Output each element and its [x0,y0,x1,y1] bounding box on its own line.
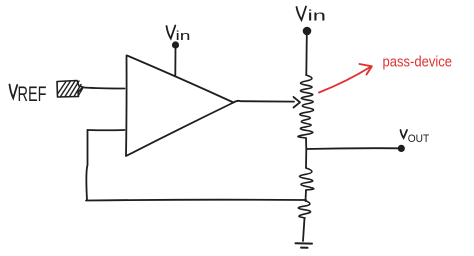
svg-text:REF: REF [18,83,47,106]
svg-text:in: in [308,9,327,25]
svg-text:in: in [176,28,191,43]
svg-text:pass-device: pass-device [383,54,453,71]
svg-text:OUT: OUT [408,133,430,145]
